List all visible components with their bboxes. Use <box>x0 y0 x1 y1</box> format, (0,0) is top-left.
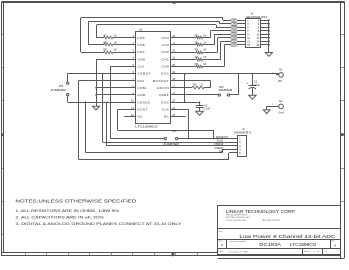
svg-text:CLK: CLK <box>137 64 145 68</box>
svg-text:R5: R5 <box>195 62 199 66</box>
svg-text:VREF: VREF <box>159 93 169 97</box>
svg-text:CH5: CH5 <box>137 36 145 40</box>
svg-text:JP3: JP3 <box>172 129 177 133</box>
svg-text:LTC1598CG: LTC1598CG <box>135 125 159 129</box>
svg-text:LINEAR TECHNOLOGY CORP.: LINEAR TECHNOLOGY CORP. <box>226 209 296 214</box>
svg-text:3. DIGITAL & ANOLOG GROUND PLA: 3. DIGITAL & ANOLOG GROUND PLANES CONNEC… <box>15 222 182 226</box>
svg-text:NC: NC <box>137 115 143 119</box>
svg-text:CH0: CH0 <box>232 44 237 47</box>
svg-text:R4: R4 <box>195 55 199 59</box>
svg-text:U1: U1 <box>139 27 143 31</box>
svg-text:1K: 1K <box>203 41 206 45</box>
svg-text:R2: R2 <box>195 41 199 45</box>
svg-text:1K: 1K <box>113 48 116 52</box>
svg-text:0.1uF: 0.1uF <box>204 106 211 110</box>
svg-text:CH0: CH0 <box>161 64 169 68</box>
svg-text:COM: COM <box>137 86 146 90</box>
svg-text:E1: E1 <box>279 68 283 72</box>
svg-text:+: + <box>246 81 248 85</box>
svg-text:1K: 1K <box>203 33 206 37</box>
svg-text:CSMUX: CSMUX <box>137 72 151 76</box>
svg-text:1K: 1K <box>203 62 206 66</box>
svg-text:NC: NC <box>164 115 170 119</box>
svg-text:JP1: JP1 <box>59 84 64 88</box>
svg-text:December 21, 1998: December 21, 1998 <box>229 250 249 253</box>
svg-text:ADCIN: ADCIN <box>157 86 169 90</box>
svg-text:GND: GND <box>137 93 146 97</box>
svg-text:Low Power 8 Channel 12-bit ADC: Low Power 8 Channel 12-bit ADC <box>239 234 336 240</box>
svg-text:E2: E2 <box>279 99 283 103</box>
svg-text:DOUT: DOUT <box>137 107 148 111</box>
svg-text:VCC: VCC <box>161 100 169 104</box>
svg-text:JUMPER: JUMPER <box>50 88 66 92</box>
svg-text:Document Number: Document Number <box>230 240 247 243</box>
svg-text:CH1: CH1 <box>161 57 169 61</box>
svg-text:A: A <box>334 243 336 247</box>
svg-text:DC183A: DC183A <box>259 242 281 247</box>
svg-text:1K: 1K <box>113 33 116 37</box>
svg-text:R8: R8 <box>104 41 108 45</box>
svg-text:CH6: CH6 <box>137 43 145 47</box>
svg-text:CH5: CH5 <box>232 26 237 29</box>
svg-text:Rev: Rev <box>331 241 334 243</box>
svg-text:R1: R1 <box>195 33 199 37</box>
svg-text:DIN: DIN <box>219 149 224 153</box>
svg-text:CH2: CH2 <box>161 50 169 54</box>
svg-text:JUMPER: JUMPER <box>218 88 232 92</box>
svg-text:1K: 1K <box>203 55 206 59</box>
svg-text:CH3: CH3 <box>161 43 169 47</box>
svg-text:10uF: 10uF <box>254 83 260 87</box>
svg-text:SCLK: SCLK <box>217 139 224 143</box>
svg-text:Sheet: Sheet <box>304 250 310 253</box>
svg-text:Gnd: Gnd <box>278 110 284 114</box>
svg-text:R6: R6 <box>193 83 197 87</box>
svg-text:CH7: CH7 <box>137 50 145 54</box>
svg-text:1. ALL RESISTORS ARE IN OHMS,: 1. ALL RESISTORS ARE IN OHMS, 1/8W 5% <box>15 209 120 213</box>
svg-text:CLK: CLK <box>162 107 170 111</box>
svg-text:VCC: VCC <box>161 72 169 76</box>
svg-text:JUMPER: JUMPER <box>163 142 179 146</box>
svg-text:R9: R9 <box>104 48 108 52</box>
svg-text:MILPITAS, CA 95035-7487: MILPITAS, CA 95035-7487 <box>226 216 251 219</box>
svg-text:R3: R3 <box>195 48 199 52</box>
svg-text:VOICE (408) 432-1900: VOICE (408) 432-1900 <box>226 220 247 222</box>
svg-text:FAX (408) 434-0507: FAX (408) 434-0507 <box>262 219 281 222</box>
svg-text:1K: 1K <box>203 48 206 52</box>
svg-text:CSADC: CSADC <box>214 146 223 150</box>
svg-text:ADCDOUT: ADCDOUT <box>216 135 229 139</box>
svg-text:LTC1598CG: LTC1598CG <box>290 242 317 247</box>
svg-text:GND: GND <box>137 57 146 61</box>
svg-text:Date:: Date: <box>218 250 224 253</box>
svg-text:+5V: +5V <box>277 79 282 83</box>
svg-text:HEADER 8X2: HEADER 8X2 <box>246 15 268 19</box>
svg-text:DIN: DIN <box>137 79 144 83</box>
svg-text:MUXOUT: MUXOUT <box>153 79 169 83</box>
svg-text:A: A <box>221 243 223 247</box>
svg-text:2. ALL CAPACITORS ARE IN uF, 2: 2. ALL CAPACITORS ARE IN uF, 20% <box>15 215 104 219</box>
svg-text:1K: 1K <box>113 41 116 45</box>
svg-text:CSMUX: CSMUX <box>214 142 224 146</box>
svg-text:NOTES:UNLESS OTHERWISE SPECIFI: NOTES:UNLESS OTHERWISE SPECIFIED <box>15 198 137 203</box>
svg-text:CSADC: CSADC <box>137 100 151 104</box>
svg-text:HEADER 5: HEADER 5 <box>234 130 252 134</box>
svg-text:CH4: CH4 <box>161 36 169 40</box>
svg-text:R7: R7 <box>104 33 108 37</box>
